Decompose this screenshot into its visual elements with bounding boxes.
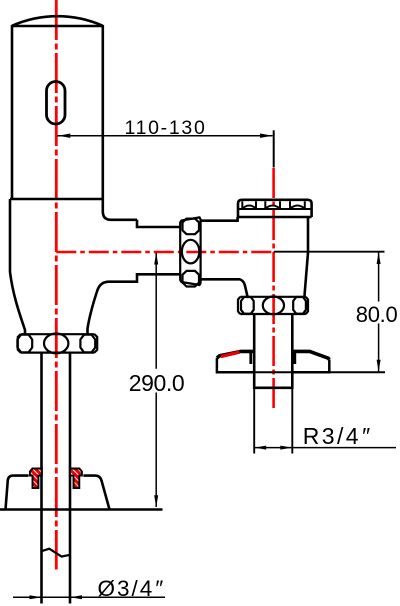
wall flange right inner step [293, 353, 296, 365]
left tail pipe walls [42, 353, 71, 604]
spud coupling nut (left, vertical axis) band [18, 334, 97, 352]
elbow right edge [305, 217, 308, 297]
centerline vertical left valve [55, 0, 58, 570]
valve body cylinder [12, 25, 103, 212]
left nut middle scallop [44, 334, 68, 354]
mounting surface line [0, 508, 163, 511]
cap slot 1 [242, 201, 256, 209]
svg-text:290.0: 290.0 [129, 370, 185, 396]
friction ring right (red hatch) [70, 469, 82, 489]
svg-text:Ø3/4″: Ø3/4″ [98, 576, 165, 601]
floor flange dome right [83, 476, 109, 510]
elbow inlet top line [201, 217, 238, 221]
dim 290.0 top arrowhead [154, 253, 158, 265]
wall flange right wing [292, 360, 329, 373]
dim 110-130 left arrowhead [58, 134, 71, 138]
body lower-left edge [10, 199, 25, 334]
svg-text:R3/4″: R3/4″ [303, 423, 372, 449]
dim R3/4 left arrowhead [254, 446, 266, 450]
body lower-right edge into outlet arm [103, 212, 137, 220]
floor flange dome left [6, 476, 29, 510]
dim 80.0 top arrowhead [377, 252, 381, 264]
dim 290.0 line lower [155, 393, 157, 508]
left nut left scallop [17, 335, 32, 353]
body shoulder line [10, 198, 103, 201]
cap slot 2 [265, 201, 280, 209]
elbow nut left scallop [241, 297, 254, 314]
wall flange left wing [217, 358, 254, 372]
elbow nut right scallop [293, 297, 306, 314]
right pipe open end [254, 386, 292, 389]
dim 110-130 extension line [273, 130, 275, 167]
dim R3/4 line with outward arrows [254, 447, 396, 449]
wall flange bottom line to extension [217, 371, 385, 373]
dim 80.0 line upper [378, 252, 380, 302]
centerline horizontal outlet [56, 251, 273, 254]
dim R3/4 right arrowhead [280, 446, 292, 450]
dim 290.0 bottom arrowhead [154, 495, 158, 507]
wall flange left wing red edge [221, 352, 240, 356]
friction ring left (red hatch) [30, 469, 42, 489]
elbow nut middle scallop [263, 297, 284, 315]
right elbow cap [238, 200, 312, 217]
wall flange left inner step [249, 353, 252, 365]
right tail pipe walls [254, 314, 292, 389]
dim dia right arrowhead [70, 595, 82, 599]
dim 80.0 line lower [378, 324, 380, 373]
outlet nut middle scallop [182, 240, 199, 264]
dim 110-130 line [57, 135, 273, 137]
wall flange right wing top [292, 351, 329, 359]
outlet neck bottom [88, 274, 181, 334]
dim 80.0 top extension line [274, 251, 385, 253]
valve body cap dome [12, 16, 103, 26]
outlet arm step top [137, 220, 181, 227]
svg-text:110-130: 110-130 [124, 117, 206, 139]
pipe break symbol [42, 549, 71, 557]
dim dia left arrowhead [30, 595, 42, 599]
left nut right scallop [80, 335, 95, 353]
dim dia 3/4 line [13, 596, 165, 598]
sensor window oval [47, 82, 66, 125]
dim R3/4 extension lines [254, 389, 292, 454]
cap band line upper [238, 208, 312, 210]
coupling nut horizontal (outlet) band [180, 217, 200, 285]
dim 80.0 bottom arrowhead [377, 360, 381, 372]
outlet nut top scallop [183, 219, 200, 235]
centerline vertical right unit [272, 168, 275, 411]
outlet nut bottom scallop [183, 271, 200, 287]
dim 110-130 right arrowhead [260, 134, 273, 138]
cap slot 3 [290, 201, 305, 209]
dim 290.0 line upper [155, 253, 157, 369]
svg-text:80.0: 80.0 [356, 302, 398, 327]
wall flange left wing top [217, 351, 254, 358]
elbow coupling nut band [238, 297, 308, 314]
elbow inlet bottom line [201, 279, 248, 296]
cap band line lower [238, 216, 312, 219]
